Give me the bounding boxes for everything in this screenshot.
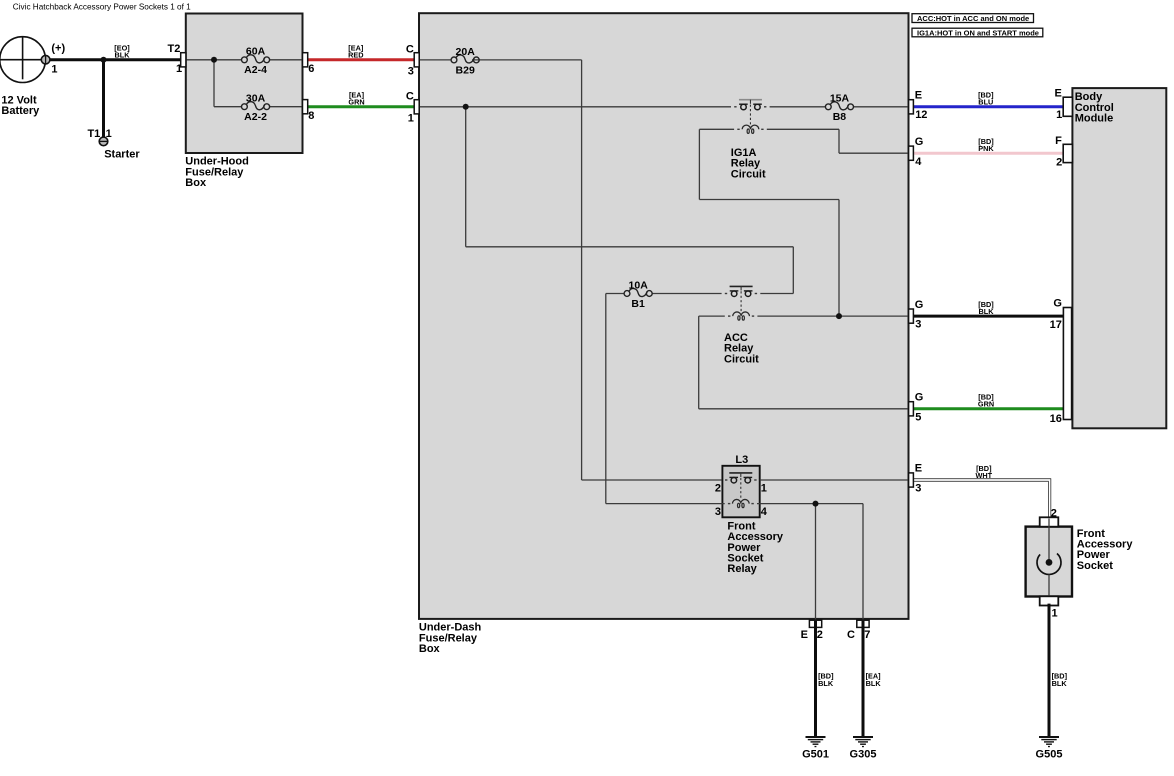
svg-text:GRN: GRN	[978, 400, 994, 409]
svg-text:F: F	[1055, 135, 1062, 147]
svg-text:B8: B8	[833, 111, 847, 123]
svg-text:BLK: BLK	[818, 679, 834, 688]
svg-text:17: 17	[1050, 319, 1062, 331]
svg-text:B29: B29	[456, 64, 475, 76]
svg-text:A2-2: A2-2	[244, 111, 267, 123]
svg-text:12: 12	[915, 109, 927, 121]
svg-text:BLK: BLK	[1052, 679, 1068, 688]
svg-text:B1: B1	[631, 298, 645, 310]
svg-text:C: C	[847, 629, 855, 641]
svg-text:E: E	[915, 89, 922, 101]
svg-text:2: 2	[817, 629, 823, 641]
svg-text:PNK: PNK	[978, 144, 994, 153]
svg-text:E: E	[915, 463, 922, 475]
svg-text:A2-4: A2-4	[244, 64, 267, 76]
svg-text:1: 1	[51, 64, 57, 76]
svg-text:2: 2	[1051, 508, 1057, 520]
svg-text:20A: 20A	[456, 46, 476, 58]
svg-text:Box: Box	[419, 643, 441, 655]
svg-text:G505: G505	[1036, 749, 1063, 761]
svg-text:5: 5	[915, 411, 921, 423]
svg-text:G: G	[1053, 298, 1062, 310]
svg-text:3: 3	[915, 482, 921, 494]
svg-text:L3: L3	[735, 454, 748, 466]
svg-text:15A: 15A	[830, 93, 850, 105]
svg-text:60A: 60A	[246, 46, 266, 58]
svg-text:BLK: BLK	[866, 679, 882, 688]
svg-text:T1: T1	[87, 128, 100, 140]
svg-text:2: 2	[1056, 156, 1062, 168]
svg-text:7: 7	[864, 629, 870, 641]
svg-text:Circuit: Circuit	[731, 168, 766, 180]
svg-text:10A: 10A	[629, 279, 649, 291]
svg-text:WHT: WHT	[975, 471, 992, 480]
svg-text:RED: RED	[348, 51, 363, 60]
svg-text:G305: G305	[850, 749, 877, 761]
svg-text:T2: T2	[168, 43, 181, 55]
svg-text:G501: G501	[802, 749, 829, 761]
svg-text:1: 1	[408, 113, 414, 125]
svg-text:BLU: BLU	[978, 98, 993, 107]
svg-text:4: 4	[915, 156, 922, 168]
svg-text:1: 1	[1056, 109, 1062, 121]
svg-text:IG1A:HOT in ON and START mode: IG1A:HOT in ON and START mode	[917, 29, 1039, 38]
svg-text:BLK: BLK	[115, 51, 131, 60]
svg-text:C: C	[406, 90, 414, 102]
svg-text:GRN: GRN	[348, 98, 364, 107]
svg-text:C: C	[406, 43, 414, 55]
svg-text:E: E	[1055, 87, 1062, 99]
svg-text:1: 1	[1052, 607, 1058, 619]
svg-text:6: 6	[308, 63, 314, 75]
svg-text:(+): (+)	[51, 43, 65, 55]
svg-text:G: G	[915, 136, 924, 148]
svg-text:8: 8	[308, 110, 314, 122]
svg-text:1: 1	[106, 128, 112, 140]
svg-text:4: 4	[761, 506, 768, 518]
svg-text:1: 1	[761, 482, 767, 494]
svg-text:Module: Module	[1075, 113, 1114, 125]
svg-text:3: 3	[408, 66, 414, 78]
svg-text:Socket: Socket	[1077, 560, 1113, 572]
svg-text:2: 2	[715, 482, 721, 494]
svg-text:E: E	[801, 629, 808, 641]
svg-text:Civic Hatchback Accessory Powe: Civic Hatchback Accessory Power Sockets …	[13, 3, 191, 12]
svg-text:30A: 30A	[246, 93, 266, 105]
svg-text:3: 3	[715, 506, 721, 518]
svg-text:Circuit: Circuit	[724, 353, 759, 365]
svg-text:BLK: BLK	[979, 307, 995, 316]
svg-text:1: 1	[176, 63, 182, 75]
svg-text:Starter: Starter	[104, 149, 140, 161]
svg-text:Relay: Relay	[727, 563, 757, 575]
svg-text:ACC:HOT in ACC and ON mode: ACC:HOT in ACC and ON mode	[917, 14, 1029, 23]
svg-text:16: 16	[1050, 413, 1062, 425]
svg-text:3: 3	[915, 319, 921, 331]
svg-text:G: G	[915, 392, 924, 404]
svg-text:Box: Box	[185, 177, 207, 189]
svg-text:Battery: Battery	[1, 105, 40, 117]
svg-text:G: G	[915, 299, 924, 311]
